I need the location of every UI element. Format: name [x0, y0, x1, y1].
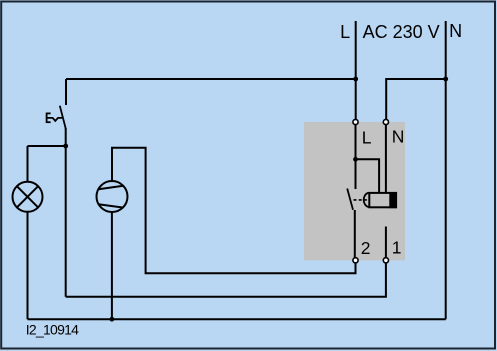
wire module L internal drop: [355, 122, 357, 189]
wire fan bottom riser: [111, 212, 113, 319]
terminal 2: [353, 258, 358, 263]
wire N return bottom horizontal: [28, 318, 446, 320]
svg-text:N: N: [449, 21, 462, 41]
relay contact K1: [347, 189, 353, 210]
relay coil K1: [369, 193, 396, 207]
svg-text:N: N: [392, 126, 405, 146]
svg-text:L: L: [362, 127, 372, 147]
wire terminal 1 to switch riser: [66, 260, 386, 297]
terminal 1: [383, 258, 388, 263]
wire lamp bottom riser: [27, 212, 29, 319]
fan M1: [97, 181, 128, 212]
latching mechanism arc: [364, 193, 369, 207]
node junction below switch: [63, 144, 68, 149]
wire module N internal drop: [385, 122, 387, 193]
node junction fan on N return: [110, 317, 115, 322]
wire terminal 1 stub: [385, 227, 387, 261]
wire lamp top drop: [27, 146, 29, 182]
coil black block: [389, 192, 397, 208]
mechanical link dashed: [354, 199, 370, 201]
node junction on N: [443, 77, 448, 82]
pushbutton switch S: [47, 106, 66, 129]
wire to lamp horizontal: [28, 145, 66, 147]
node junction on L: [353, 77, 358, 82]
svg-text:I2_10914: I2_10914: [26, 322, 79, 338]
relay module box: [304, 122, 405, 260]
lamp E1: [13, 182, 43, 212]
svg-text:2: 2: [361, 238, 371, 258]
node junction module internal: [353, 157, 358, 162]
wire branch to coil: [356, 159, 380, 193]
svg-text:L: L: [340, 22, 350, 42]
wire switch bottom riser to wire B: [65, 128, 67, 297]
wire L feed horizontal: [66, 78, 356, 80]
svg-text:1: 1: [392, 237, 402, 257]
wire N vertical right side: [445, 21, 447, 319]
wire fan top riser: [112, 148, 356, 274]
terminal L: [353, 119, 358, 124]
terminal N: [383, 119, 388, 124]
svg-text:AC 230 V: AC 230 V: [363, 22, 440, 42]
wire L vertical drop: [355, 21, 357, 122]
wire contact bottom riser: [354, 210, 356, 260]
wire switch top drop: [65, 79, 67, 105]
wire N branch to module: [386, 79, 446, 122]
